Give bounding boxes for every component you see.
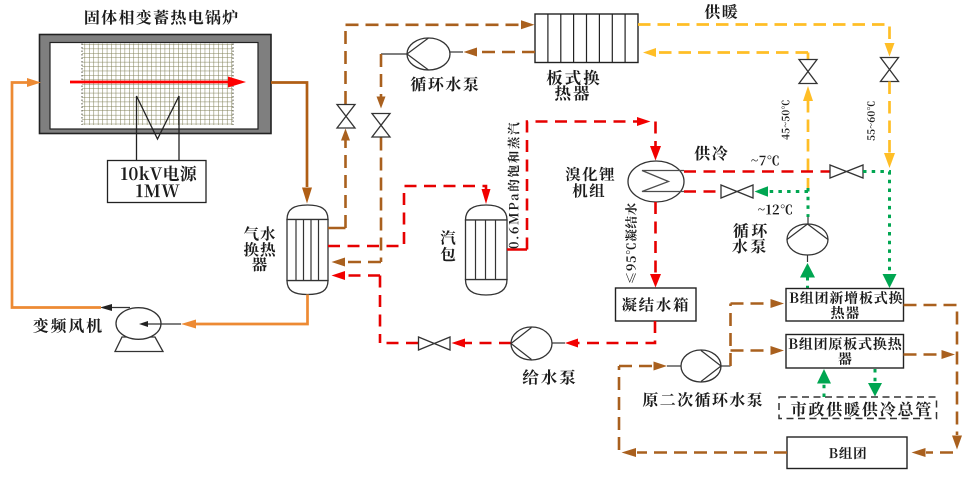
text label: 固体相变蓄热电锅炉 [85, 10, 238, 25]
pipe: brown stub gas-water HX right top [328, 227, 346, 230]
text label: 给水泵 [523, 369, 576, 385]
text label: ~12℃ [758, 204, 792, 214]
text label: 包 [441, 247, 456, 261]
red airflow arrow inside boiler [70, 77, 246, 88]
pipe: fan outlet left and up to boiler inlet (orange) [12, 78, 130, 311]
text label: B组团 [829, 447, 866, 460]
text label: 变频风机 [33, 318, 102, 333]
pipe: brown dashed riser to plate HX supply [341, 20, 535, 228]
pipe: brown dashed from original HX box right joining riser [904, 350, 956, 359]
pipe: brown dashed B-block return to pump suction [619, 366, 787, 457]
valve on 45-50 riser [799, 60, 817, 84]
pipe: brown dashed return from plate HX through circulation pump [450, 48, 535, 57]
municipal heating/cooling main (dashed box) [779, 397, 937, 419]
lithium bromide chiller unit [628, 161, 684, 202]
pipe: red dashed condensate LiBr to condensate tank [650, 202, 661, 288]
pipe: green dotted from riser junction to 12C valve [755, 186, 809, 217]
pipe: red dashed chilled return ~12C into LiBr [684, 190, 721, 193]
circulation pump (boiler loop) [407, 38, 450, 70]
text label: 热器 [831, 306, 859, 319]
chilled water circulation pump (right) [787, 217, 828, 262]
valve on 7C line [830, 165, 863, 178]
text label: 机组 [573, 183, 605, 198]
pipe: red dashed feedwater into gas-water HX [332, 271, 381, 343]
valve on feedwater line [419, 337, 451, 350]
pipe: red dashed chilled supply ~7C from LiBr [684, 170, 830, 173]
text label: 汽 [441, 230, 456, 245]
text label: B组团原板式换热 [789, 337, 902, 350]
valve on 55-60 riser [881, 58, 899, 82]
pipe: pump outlet down through valve to gas-water HX [332, 54, 408, 267]
feedwater pump [511, 327, 565, 360]
text label: 溴化锂 [566, 167, 615, 182]
pipe: boiler right outlet down to gas-water HX (hot air, dark orange) [271, 83, 312, 204]
B-block original plate HX box [786, 335, 904, 369]
B-block box [787, 437, 907, 469]
text label: 凝结水箱 [622, 297, 688, 312]
text label: 供冷 [695, 145, 728, 160]
text label: 换热 [244, 242, 275, 257]
valve on pump downcomer (right) [372, 114, 390, 138]
pipe: yellow dashed heating return riser 45-50C with valve [643, 48, 813, 188]
text label: 1MW [136, 184, 179, 197]
text label: 市政供暖供冷总管 [791, 401, 931, 416]
text label: 器 [252, 257, 267, 271]
pipe: gas-water HX bottom to fan (cool air return, orange) [181, 295, 308, 329]
pipe: green dotted original HX to municipal main (down) [868, 369, 882, 397]
valve on riser (left) [337, 105, 355, 129]
text label: 器 [838, 352, 851, 365]
text label: 循环 [733, 223, 767, 238]
text label: ≤95℃凝结水 [625, 203, 637, 283]
B-block new plate HX box [786, 289, 904, 322]
pipe: red stub steam drum right + 0.6MPa saturated steam riser to LiBr unit [507, 117, 661, 250]
text label: 气水 [244, 226, 275, 241]
text label: 循环水泵 [411, 77, 479, 92]
power supply box 10kV 1MW [108, 161, 207, 203]
pipe: red dashed condensate tank to feed pump and back to HX [380, 321, 655, 348]
boiler outer shell (gray wall) [40, 35, 272, 134]
pipe: brown dashed B-loop into secondary pump [619, 362, 681, 371]
text label: 板式换 [547, 70, 600, 86]
fan inlet stub with black arrow [139, 321, 181, 327]
boiler heat-storage grid core [82, 44, 233, 126]
pipe: green dotted pump suction from new plate HX box [800, 263, 815, 288]
pipe: green dotted municipal main to original HX (up) [817, 369, 831, 397]
text label: 55~60℃ [867, 102, 875, 141]
pipe: green dotted 7C to right drop [863, 172, 897, 289]
original secondary circulation pump [681, 350, 731, 382]
heating element M symbol [137, 96, 180, 161]
text label: 原二次循环水泵 [643, 392, 762, 407]
text label: ~7℃ [751, 155, 778, 165]
text label: 0.6MPa的饱和蒸汽 [508, 123, 520, 249]
pipe: red dashed steam line gas-water HX to steam drum top [328, 186, 491, 246]
text label: 10kV电源 [121, 166, 196, 182]
plate heat exchanger [535, 14, 638, 63]
pipe: brown dashed pump discharge up with two branches to B-block HX boxes [731, 299, 785, 366]
text label: B组团新增板式换 [790, 291, 903, 304]
text label: 水泵 [732, 239, 766, 254]
text label: 45~50℃ [782, 100, 790, 139]
gas-water heat exchanger vessel [287, 205, 328, 295]
text label: 热器 [555, 85, 589, 101]
text label: 供暖 [705, 4, 738, 19]
condensate tank box [616, 288, 697, 321]
variable frequency fan [115, 308, 163, 352]
steam drum vessel [466, 205, 508, 295]
pipe: yellow dashed heating supply from plate HX to right riser [638, 25, 895, 57]
valve on 12C line [721, 185, 753, 198]
pipe: yellow dashed 55-60C down to cold junction [884, 82, 895, 169]
pipe: brown dashed from new HX box right around to B-block box [904, 305, 963, 457]
